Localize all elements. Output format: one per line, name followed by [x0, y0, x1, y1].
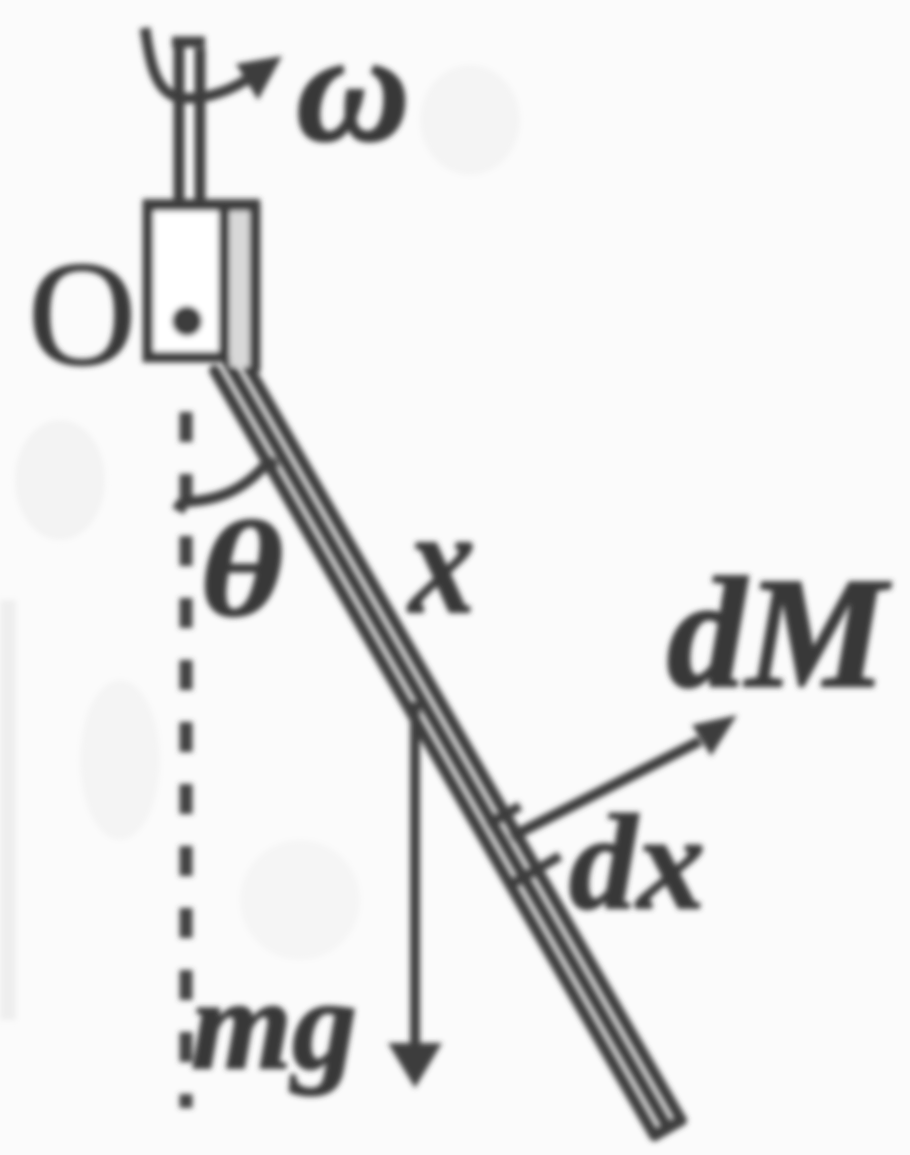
svg-text:θ: θ — [200, 494, 283, 645]
dashed vertical line — [180, 412, 193, 1108]
svg-text:dx: dx — [569, 788, 705, 938]
faint scan smudges — [0, 65, 520, 1020]
rod — [211, 352, 686, 1138]
pivot block — [148, 205, 224, 357]
svg-text:ω: ω — [296, 0, 410, 175]
axis shaft — [172, 42, 205, 205]
svg-text:O: O — [28, 231, 136, 397]
mg arrow — [410, 702, 420, 1050]
svg-text:x: x — [407, 478, 475, 645]
dx tick 1 — [487, 806, 520, 825]
svg-text:dM: dM — [667, 546, 891, 721]
omega rotation arrow — [145, 28, 246, 98]
theta arc — [183, 464, 266, 502]
svg-text:mg: mg — [191, 953, 357, 1097]
dM arrow — [511, 741, 700, 837]
dx tick 2 — [512, 856, 560, 884]
pivot dot — [172, 306, 202, 336]
